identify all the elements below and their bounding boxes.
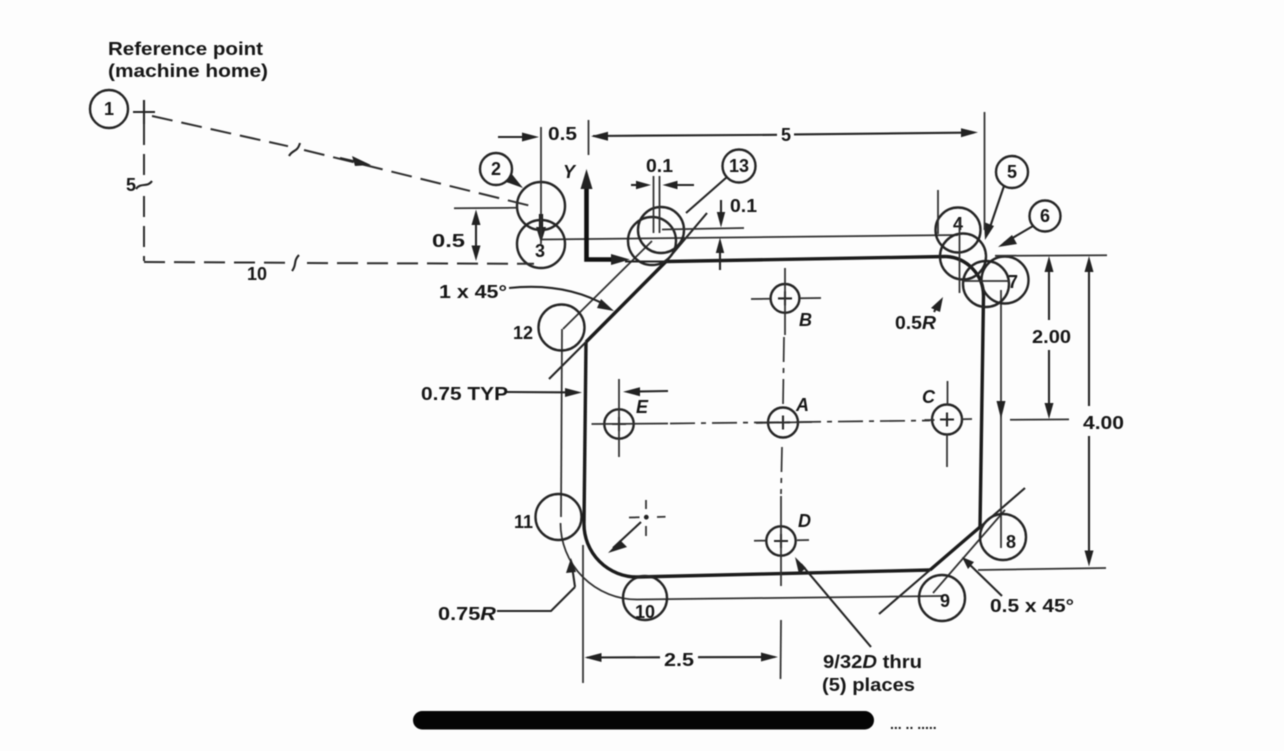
svg-text:4: 4 (953, 214, 963, 234)
svg-text:0.5: 0.5 (432, 231, 465, 251)
svg-text:A: A (795, 395, 809, 415)
svg-text:6: 6 (1040, 206, 1050, 226)
svg-text:0.75R: 0.75R (438, 604, 496, 624)
svg-text:(5) places: (5) places (822, 675, 915, 695)
svg-text:0.5: 0.5 (548, 124, 577, 144)
svg-text:Y: Y (563, 162, 577, 182)
svg-text:7: 7 (1008, 272, 1018, 292)
svg-text:B: B (799, 310, 812, 330)
svg-text:5: 5 (1007, 162, 1017, 182)
svg-text:0.1: 0.1 (730, 196, 757, 216)
svg-text:9: 9 (940, 591, 950, 611)
svg-text:0.1: 0.1 (646, 156, 673, 176)
svg-text:2.5: 2.5 (664, 650, 694, 670)
svg-text:0.75 TYP: 0.75 TYP (421, 384, 508, 404)
svg-text:13: 13 (729, 156, 749, 176)
svg-text:Reference point: Reference point (108, 39, 263, 59)
svg-text:1: 1 (104, 99, 114, 119)
svg-text:2: 2 (491, 159, 501, 179)
svg-text:(machine home): (machine home) (108, 61, 268, 81)
svg-text:E: E (636, 397, 649, 417)
svg-text:2.00: 2.00 (1032, 327, 1071, 347)
svg-text:9/32D thru: 9/32D thru (823, 652, 922, 672)
svg-text:C: C (922, 387, 936, 407)
svg-text:5: 5 (781, 125, 791, 145)
svg-text:4.00: 4.00 (1083, 413, 1124, 433)
svg-text:... .. .....: ... .. ..... (890, 716, 937, 732)
svg-text:5: 5 (126, 175, 136, 195)
svg-text:D: D (798, 511, 811, 531)
svg-text:1 x 45°: 1 x 45° (439, 282, 507, 302)
svg-text:12: 12 (513, 323, 533, 343)
svg-text:8: 8 (1006, 532, 1016, 552)
svg-text:11: 11 (514, 512, 533, 532)
svg-text:3: 3 (535, 241, 545, 261)
svg-text:0.5 x 45°: 0.5 x 45° (990, 596, 1074, 616)
svg-text:0.5R: 0.5R (895, 313, 936, 333)
svg-text:10: 10 (635, 602, 655, 622)
svg-text:10: 10 (247, 264, 267, 284)
